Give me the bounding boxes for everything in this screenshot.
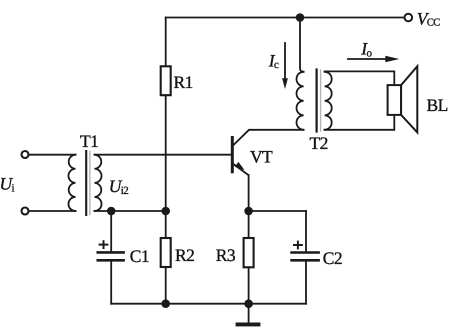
svg-text:C1: C1 xyxy=(130,246,149,266)
wire T1 secondary bottom xyxy=(95,210,166,212)
svg-text:R1: R1 xyxy=(174,72,193,92)
transformer T2 primary winding xyxy=(297,72,304,130)
wire input top lead xyxy=(29,154,76,156)
current arrow Ic xyxy=(284,43,286,80)
transformer T2 core xyxy=(316,70,318,132)
transformer T2 secondary winding xyxy=(325,72,332,130)
wire top supply rail xyxy=(166,17,405,19)
wire emitter node to C2 xyxy=(249,210,306,212)
polarity plus C2 xyxy=(294,244,302,246)
wire T1 secondary top to base of VT xyxy=(95,154,232,156)
terminal Vcc xyxy=(405,14,413,22)
node junction top rail to T2 primary xyxy=(297,14,304,21)
wire input bottom lead xyxy=(29,210,76,212)
transistor Q VT base bar xyxy=(231,138,234,172)
transistor VT emitter lead xyxy=(233,163,249,175)
node junction C1 top xyxy=(108,208,115,215)
polarity plus C1 xyxy=(100,244,108,246)
wire emitter vertical xyxy=(248,175,250,238)
resistor R1 xyxy=(161,66,171,95)
resistor R3 xyxy=(244,238,254,267)
svg-text:BL: BL xyxy=(427,95,448,115)
resistor R2 xyxy=(161,238,171,267)
capacitor C1 xyxy=(98,251,124,254)
wire T2 secondary bottom to speaker xyxy=(325,115,395,130)
svg-text:R3: R3 xyxy=(216,245,236,265)
transformer T1 secondary winding xyxy=(95,155,102,211)
wire bottom ground rail xyxy=(111,303,306,305)
node junction R2 bottom xyxy=(162,300,169,307)
transformer T1 core xyxy=(85,151,87,215)
transistor VT collector lead xyxy=(233,130,304,146)
svg-text:VT: VT xyxy=(250,146,273,166)
terminal input bottom xyxy=(22,208,29,215)
wire R1 bottom to R2 top (bias column) xyxy=(165,95,167,238)
wire R1 top lead xyxy=(165,18,167,67)
wire R3 bottom lead xyxy=(248,267,250,303)
wire R2 bottom lead xyxy=(165,267,167,304)
transistor VT emitter arrow xyxy=(235,162,245,170)
wire T2 secondary top to speaker xyxy=(325,71,395,85)
transformer T1 primary winding xyxy=(68,155,75,211)
current arrow Io xyxy=(348,58,386,60)
wire C2 bottom lead xyxy=(305,262,307,304)
node junction R3 bottom / ground xyxy=(245,300,252,307)
ground xyxy=(248,304,250,323)
speaker BL body xyxy=(388,85,402,115)
svg-text:T1: T1 xyxy=(80,131,98,151)
wire C1 bottom lead xyxy=(110,262,112,304)
node junction emitter / R3 / C2 xyxy=(245,208,252,215)
wire C2 top lead xyxy=(305,211,307,251)
wire C1 top lead xyxy=(110,211,112,251)
node junction R2 top / secondary bottom xyxy=(162,208,169,215)
capacitor C2 xyxy=(292,251,319,254)
speaker BL cone xyxy=(401,66,417,132)
svg-text:C2: C2 xyxy=(323,248,342,268)
wire Vcc junction down to T2 primary xyxy=(300,18,304,72)
svg-text:R2: R2 xyxy=(175,245,194,265)
svg-text:T2: T2 xyxy=(310,133,328,153)
terminal input top xyxy=(22,151,29,158)
